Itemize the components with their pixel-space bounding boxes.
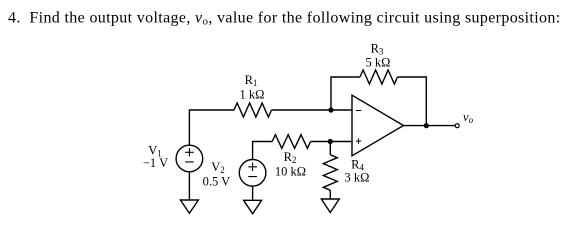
svg-text:R1: R1 [245, 73, 258, 88]
label R1 [240, 73, 265, 102]
svg-text:R2: R2 [284, 150, 297, 165]
op-amp plus symbol [356, 139, 361, 144]
ground (V1) [180, 200, 198, 213]
resistor R2 [272, 135, 310, 149]
op-amp U1 [352, 95, 404, 156]
wire R2 to op-amp plus input [311, 141, 352, 143]
wire R3 to output [398, 77, 427, 126]
svg-text:10 kΩ: 10 kΩ [275, 165, 306, 179]
label R2 [275, 150, 306, 179]
label R3 [366, 42, 391, 70]
wire junction to R4 [329, 142, 331, 155]
resistor R3 [360, 70, 398, 84]
wire V2 bottom [252, 186, 254, 200]
wire feedback riser [331, 77, 360, 110]
node C junction dot (non-inverting input) [328, 139, 333, 144]
label R4 [345, 158, 370, 185]
wire V1 bottom [188, 172, 190, 200]
label V2 [203, 160, 231, 189]
label V1 [143, 144, 168, 171]
voltage source V1 [176, 145, 203, 172]
wire op-amp output [404, 125, 456, 127]
op-amp minus symbol [356, 110, 361, 112]
svg-text:V2: V2 [211, 160, 225, 175]
ground (V2) [244, 200, 262, 214]
ground (R4) [321, 199, 339, 213]
svg-text:1 kΩ: 1 kΩ [240, 88, 265, 102]
wire R1 to op-amp minus input [272, 109, 353, 111]
resistor R1 [234, 103, 272, 117]
resistor R4 [323, 155, 337, 191]
svg-text:R3: R3 [371, 42, 384, 57]
voltage source V2 [239, 160, 266, 187]
wire R4 to ground [329, 190, 331, 199]
svg-text:3 kΩ: 3 kΩ [345, 171, 370, 185]
svg-text:4. Find the output voltage, v: 4. Find the output voltage, vo, value fo… [8, 10, 561, 28]
svg-text:0.5 V: 0.5 V [203, 175, 231, 189]
output terminal open circle [455, 124, 459, 128]
wire V2 top to R2 [253, 142, 273, 160]
node B junction dot (output) [424, 123, 429, 128]
svg-text:5 kΩ: 5 kΩ [366, 56, 391, 70]
wire V1 top to R1 [189, 110, 234, 145]
node A junction dot (inverting input) [328, 107, 333, 112]
svg-text:−1 V: −1 V [143, 156, 168, 170]
svg-text:vo: vo [463, 110, 474, 125]
